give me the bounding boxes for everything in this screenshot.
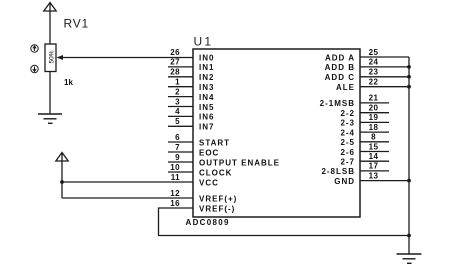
- pin 24 ADD B: [325, 58, 409, 73]
- svg-text:ADD A: ADD A: [325, 53, 355, 62]
- svg-text:START: START: [199, 138, 230, 147]
- pin 11 VCC: [171, 173, 219, 188]
- pin 10 CLOCK: [168, 163, 232, 178]
- wire rail to VREF(+) pin 12: [62, 197, 193, 199]
- svg-text:14: 14: [369, 152, 379, 161]
- svg-text:10: 10: [170, 163, 180, 172]
- pin 3 IN5: [168, 97, 214, 112]
- svg-text:U1: U1: [194, 35, 214, 49]
- pin 9 OUTPUT ENABLE: [168, 153, 280, 168]
- wire rail to VCC pin 11: [62, 181, 193, 183]
- svg-text:22: 22: [369, 78, 379, 87]
- svg-text:28: 28: [170, 68, 180, 77]
- svg-text:2-5: 2-5: [340, 138, 355, 147]
- svg-text:2-7: 2-7: [340, 158, 355, 167]
- svg-text:ADC0809: ADC0809: [186, 218, 230, 227]
- svg-text:2: 2: [175, 87, 180, 96]
- pin 5 IN7: [168, 117, 214, 132]
- svg-text:EOC: EOC: [199, 148, 219, 157]
- pot increment control: [31, 45, 38, 52]
- pin 4 IN6: [168, 107, 214, 122]
- svg-text:2-8LSB: 2-8LSB: [321, 167, 355, 176]
- pin 12 VREF(+): [170, 189, 237, 204]
- svg-text:24: 24: [369, 58, 379, 67]
- svg-text:2-2: 2-2: [340, 109, 355, 118]
- svg-text:IN6: IN6: [199, 113, 214, 122]
- pin 20 2-2: [340, 104, 389, 119]
- svg-text:IN7: IN7: [199, 123, 214, 132]
- pin 2 IN4: [168, 87, 214, 102]
- pin 18 2-4: [340, 123, 389, 138]
- svg-text:23: 23: [369, 68, 379, 77]
- pin 21 2-1MSB: [320, 94, 389, 109]
- pin 7 EOC: [168, 143, 219, 158]
- pin 22 ALE: [336, 78, 409, 93]
- svg-text:2-6: 2-6: [340, 148, 355, 157]
- junction dot ADD B: [407, 65, 411, 69]
- ground (left): [38, 114, 62, 123]
- junction dot VCC rail: [60, 180, 64, 184]
- svg-text:IN4: IN4: [199, 93, 214, 102]
- svg-text:19: 19: [369, 113, 379, 122]
- pin 6 START: [168, 133, 230, 148]
- svg-text:20: 20: [369, 104, 379, 113]
- power terminal (top of RV1): [44, 3, 56, 45]
- svg-text:VREF(-): VREF(-): [199, 204, 235, 213]
- svg-text:CLOCK: CLOCK: [199, 168, 232, 177]
- svg-text:ADD C: ADD C: [325, 73, 355, 82]
- pin 14 2-7: [340, 152, 389, 167]
- potentiometer RV1 body: [45, 44, 56, 72]
- svg-text:GND: GND: [334, 177, 355, 186]
- svg-text:25: 25: [369, 48, 379, 57]
- pin 13 GND: [334, 171, 409, 186]
- svg-text:VREF(+): VREF(+): [199, 194, 237, 203]
- svg-text:1: 1: [175, 78, 180, 87]
- svg-text:17: 17: [369, 162, 379, 171]
- wire wiper to IN0: [62, 57, 193, 59]
- svg-text:ALE: ALE: [336, 83, 355, 92]
- svg-text:3: 3: [175, 97, 180, 106]
- pin 16 VREF(-): [170, 199, 235, 214]
- svg-text:1k: 1k: [64, 78, 73, 87]
- RV1 wiper arrow: [57, 55, 64, 60]
- svg-text:27: 27: [170, 58, 180, 67]
- junction dot ALE: [407, 85, 411, 89]
- svg-text:7: 7: [175, 143, 180, 152]
- svg-text:16: 16: [170, 199, 180, 208]
- svg-text:OUTPUT ENABLE: OUTPUT ENABLE: [199, 158, 280, 167]
- pin 17 2-8LSB: [321, 162, 389, 177]
- pin 25 ADD A: [325, 48, 409, 63]
- svg-text:18: 18: [369, 123, 379, 132]
- junction dot GND pin: [407, 179, 411, 183]
- power terminal (VCC rail): [56, 153, 68, 199]
- svg-text:2-4: 2-4: [340, 128, 355, 137]
- pin 1 IN3: [168, 78, 214, 93]
- pin 15 2-6: [340, 142, 389, 157]
- svg-text:9: 9: [175, 153, 180, 162]
- svg-text:IN0: IN0: [199, 53, 214, 62]
- svg-text:8: 8: [371, 133, 376, 142]
- pot decrement control: [31, 65, 38, 72]
- pin 23 ADD C: [325, 68, 409, 83]
- pin 28 IN2: [168, 68, 214, 83]
- svg-text:VCC: VCC: [199, 178, 219, 187]
- junction dot VREF(-) loop: [407, 234, 411, 238]
- pin 8 2-5: [340, 133, 389, 148]
- svg-text:ADD B: ADD B: [325, 63, 355, 72]
- wire right bus vertical: [408, 57, 410, 254]
- svg-text:RV1: RV1: [64, 17, 90, 31]
- IC U1 ADC0809 body: [193, 49, 360, 217]
- svg-text:26: 26: [170, 48, 180, 57]
- pin 27 IN1: [168, 58, 214, 73]
- svg-text:IN3: IN3: [199, 83, 214, 92]
- pin 26 IN0: [170, 48, 214, 63]
- pin 19 2-3: [340, 113, 389, 128]
- svg-text:IN1: IN1: [199, 63, 214, 72]
- svg-text:4: 4: [175, 107, 180, 116]
- wire VREF(-) pin 16 loop to ground bus: [159, 208, 410, 236]
- svg-text:50%: 50%: [49, 50, 56, 63]
- svg-text:6: 6: [175, 133, 180, 142]
- svg-text:IN5: IN5: [199, 103, 214, 112]
- junction dot ADD C: [407, 75, 411, 79]
- svg-text:11: 11: [171, 173, 180, 182]
- svg-text:12: 12: [170, 189, 180, 198]
- svg-text:13: 13: [369, 171, 379, 180]
- wire pot bottom to ground: [49, 72, 51, 115]
- svg-text:15: 15: [369, 142, 379, 151]
- svg-text:5: 5: [175, 117, 180, 126]
- svg-text:2-1MSB: 2-1MSB: [320, 99, 355, 108]
- ground (right): [397, 254, 422, 263]
- svg-text:2-3: 2-3: [340, 119, 355, 128]
- svg-text:21: 21: [369, 94, 379, 103]
- svg-text:IN2: IN2: [199, 73, 214, 82]
